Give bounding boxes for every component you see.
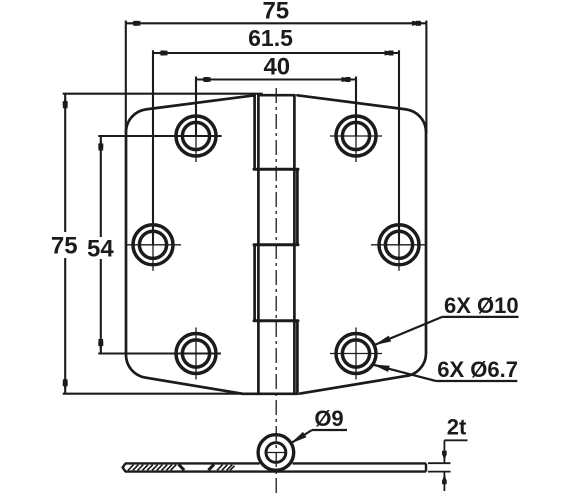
svg-text:61.5: 61.5 — [248, 25, 293, 51]
svg-text:6X Ø10: 6X Ø10 — [444, 293, 519, 318]
svg-text:Ø9: Ø9 — [314, 406, 343, 431]
svg-text:75: 75 — [51, 233, 78, 260]
svg-text:2t: 2t — [447, 415, 467, 440]
svg-text:75: 75 — [262, 0, 289, 25]
svg-text:40: 40 — [263, 54, 290, 81]
svg-text:6X Ø6.7: 6X Ø6.7 — [437, 357, 518, 382]
svg-text:54: 54 — [87, 236, 114, 263]
